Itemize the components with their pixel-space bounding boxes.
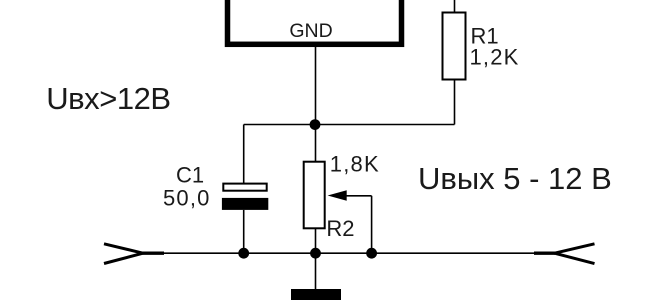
svg-text:50,0: 50,0 (163, 186, 211, 211)
ground symbol (solid bar) (291, 289, 341, 300)
wire thick stub left arrow (143, 251, 165, 254)
svg-text:R2: R2 (326, 216, 354, 241)
capacitor C1 top plate (223, 184, 266, 191)
svg-text:C1: C1 (176, 162, 204, 187)
junction dot wiper/rail (366, 248, 377, 259)
capacitor C1 bottom plate (polarized solid) (222, 198, 268, 210)
wire node A down to R2 top (315, 125, 317, 162)
wire R1 bottom lead to node A rail (454, 80, 456, 125)
regulator IC box U1 (cut off at top) (228, 0, 402, 44)
potentiometer R2 body (304, 162, 325, 229)
wire R2 bottom lead (315, 228, 317, 253)
svg-text:1,2K: 1,2K (470, 45, 520, 70)
svg-text:GND: GND (289, 20, 332, 42)
connector arrow left (open chevron) (104, 244, 143, 264)
junction dot R2/rail (310, 248, 321, 259)
wire R1 top lead (454, 0, 456, 13)
connector arrow right (open chevron) (555, 244, 595, 264)
wire rail down to ground symbol (315, 253, 317, 290)
node A junction dot (310, 119, 321, 130)
wire thick stub right arrow (534, 251, 555, 254)
wire C1 bottom lead to ground rail (243, 210, 245, 253)
svg-text:Uвх>12В: Uвх>12В (46, 81, 170, 116)
wire from GND pin down to node A (315, 47, 317, 125)
svg-text:1,8K: 1,8K (330, 152, 380, 177)
wiper arrowhead of R2 (328, 190, 347, 201)
wire wiper down to ground rail (371, 196, 373, 253)
wire horizontal node A rail (244, 124, 455, 126)
resistor R1 body (443, 13, 466, 80)
wire C1 top lead (243, 125, 245, 185)
wire wiper horizontal (345, 195, 372, 197)
junction dot C1/rail (238, 248, 249, 259)
wire bottom ground rail (143, 252, 555, 254)
svg-text:Uвых 5 - 12 В: Uвых 5 - 12 В (418, 161, 612, 196)
